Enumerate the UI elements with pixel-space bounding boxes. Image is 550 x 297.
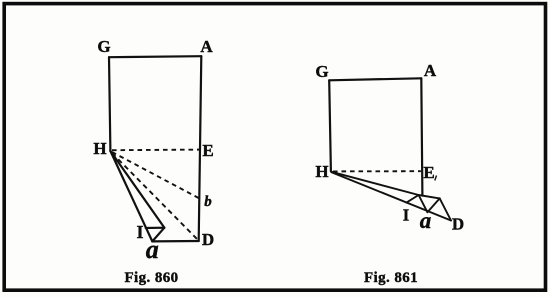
svg-text:I: I	[403, 206, 409, 225]
svg-text:a: a	[420, 208, 432, 233]
wire solid fold H-a	[110, 151, 152, 241]
svg-text:D: D	[202, 230, 214, 249]
wire left edge G-H	[109, 57, 110, 151]
wire bottom edge a-D	[152, 240, 198, 243]
svg-text:A: A	[424, 61, 437, 80]
svg-text:b: b	[204, 194, 212, 210]
svg-text:E: E	[202, 141, 213, 160]
svg-text:E: E	[423, 163, 434, 182]
wire lower fold H-D	[332, 172, 452, 220]
svg-text:I: I	[136, 222, 143, 242]
sheet outline GAHD (left)	[109, 56, 201, 241]
svg-text:G: G	[97, 37, 110, 56]
wire top edge G-A	[109, 56, 201, 57]
svg-text:G: G	[315, 62, 328, 81]
svg-text:Fig. 860: Fig. 860	[124, 270, 178, 286]
svg-text:D: D	[452, 215, 464, 234]
svg-text:a: a	[146, 235, 159, 264]
wire right edge A-E-b-D	[199, 56, 202, 241]
wire dashed crease H-E right	[333, 170, 421, 172]
tick after E	[435, 176, 437, 181]
svg-text:Fig. 861: Fig. 861	[364, 270, 418, 286]
wire left edge G-H right	[329, 80, 331, 171]
node H crease dashed H-E	[112, 149, 200, 152]
svg-text:H: H	[315, 162, 328, 181]
wire dashed crease H-D	[112, 153, 197, 239]
wire apex2 to D	[440, 198, 451, 220]
wire apex1 to P1	[407, 195, 419, 203]
wire upper fold H-apex1	[332, 172, 419, 195]
wire apex1 to valley	[419, 195, 428, 212]
wire solid fold H-triangle	[110, 151, 164, 228]
svg-text:H: H	[93, 139, 106, 158]
wire valley to apex2	[427, 198, 439, 212]
fan folds near D	[332, 172, 452, 221]
wire top edge G-A right	[329, 78, 421, 80]
wire apex1 to apex2	[419, 195, 440, 198]
small flap triangle I-a	[146, 228, 165, 242]
svg-text:A: A	[200, 37, 213, 56]
wire dashed crease H-b	[112, 152, 199, 198]
wire right edge A-E extended	[421, 78, 422, 195]
